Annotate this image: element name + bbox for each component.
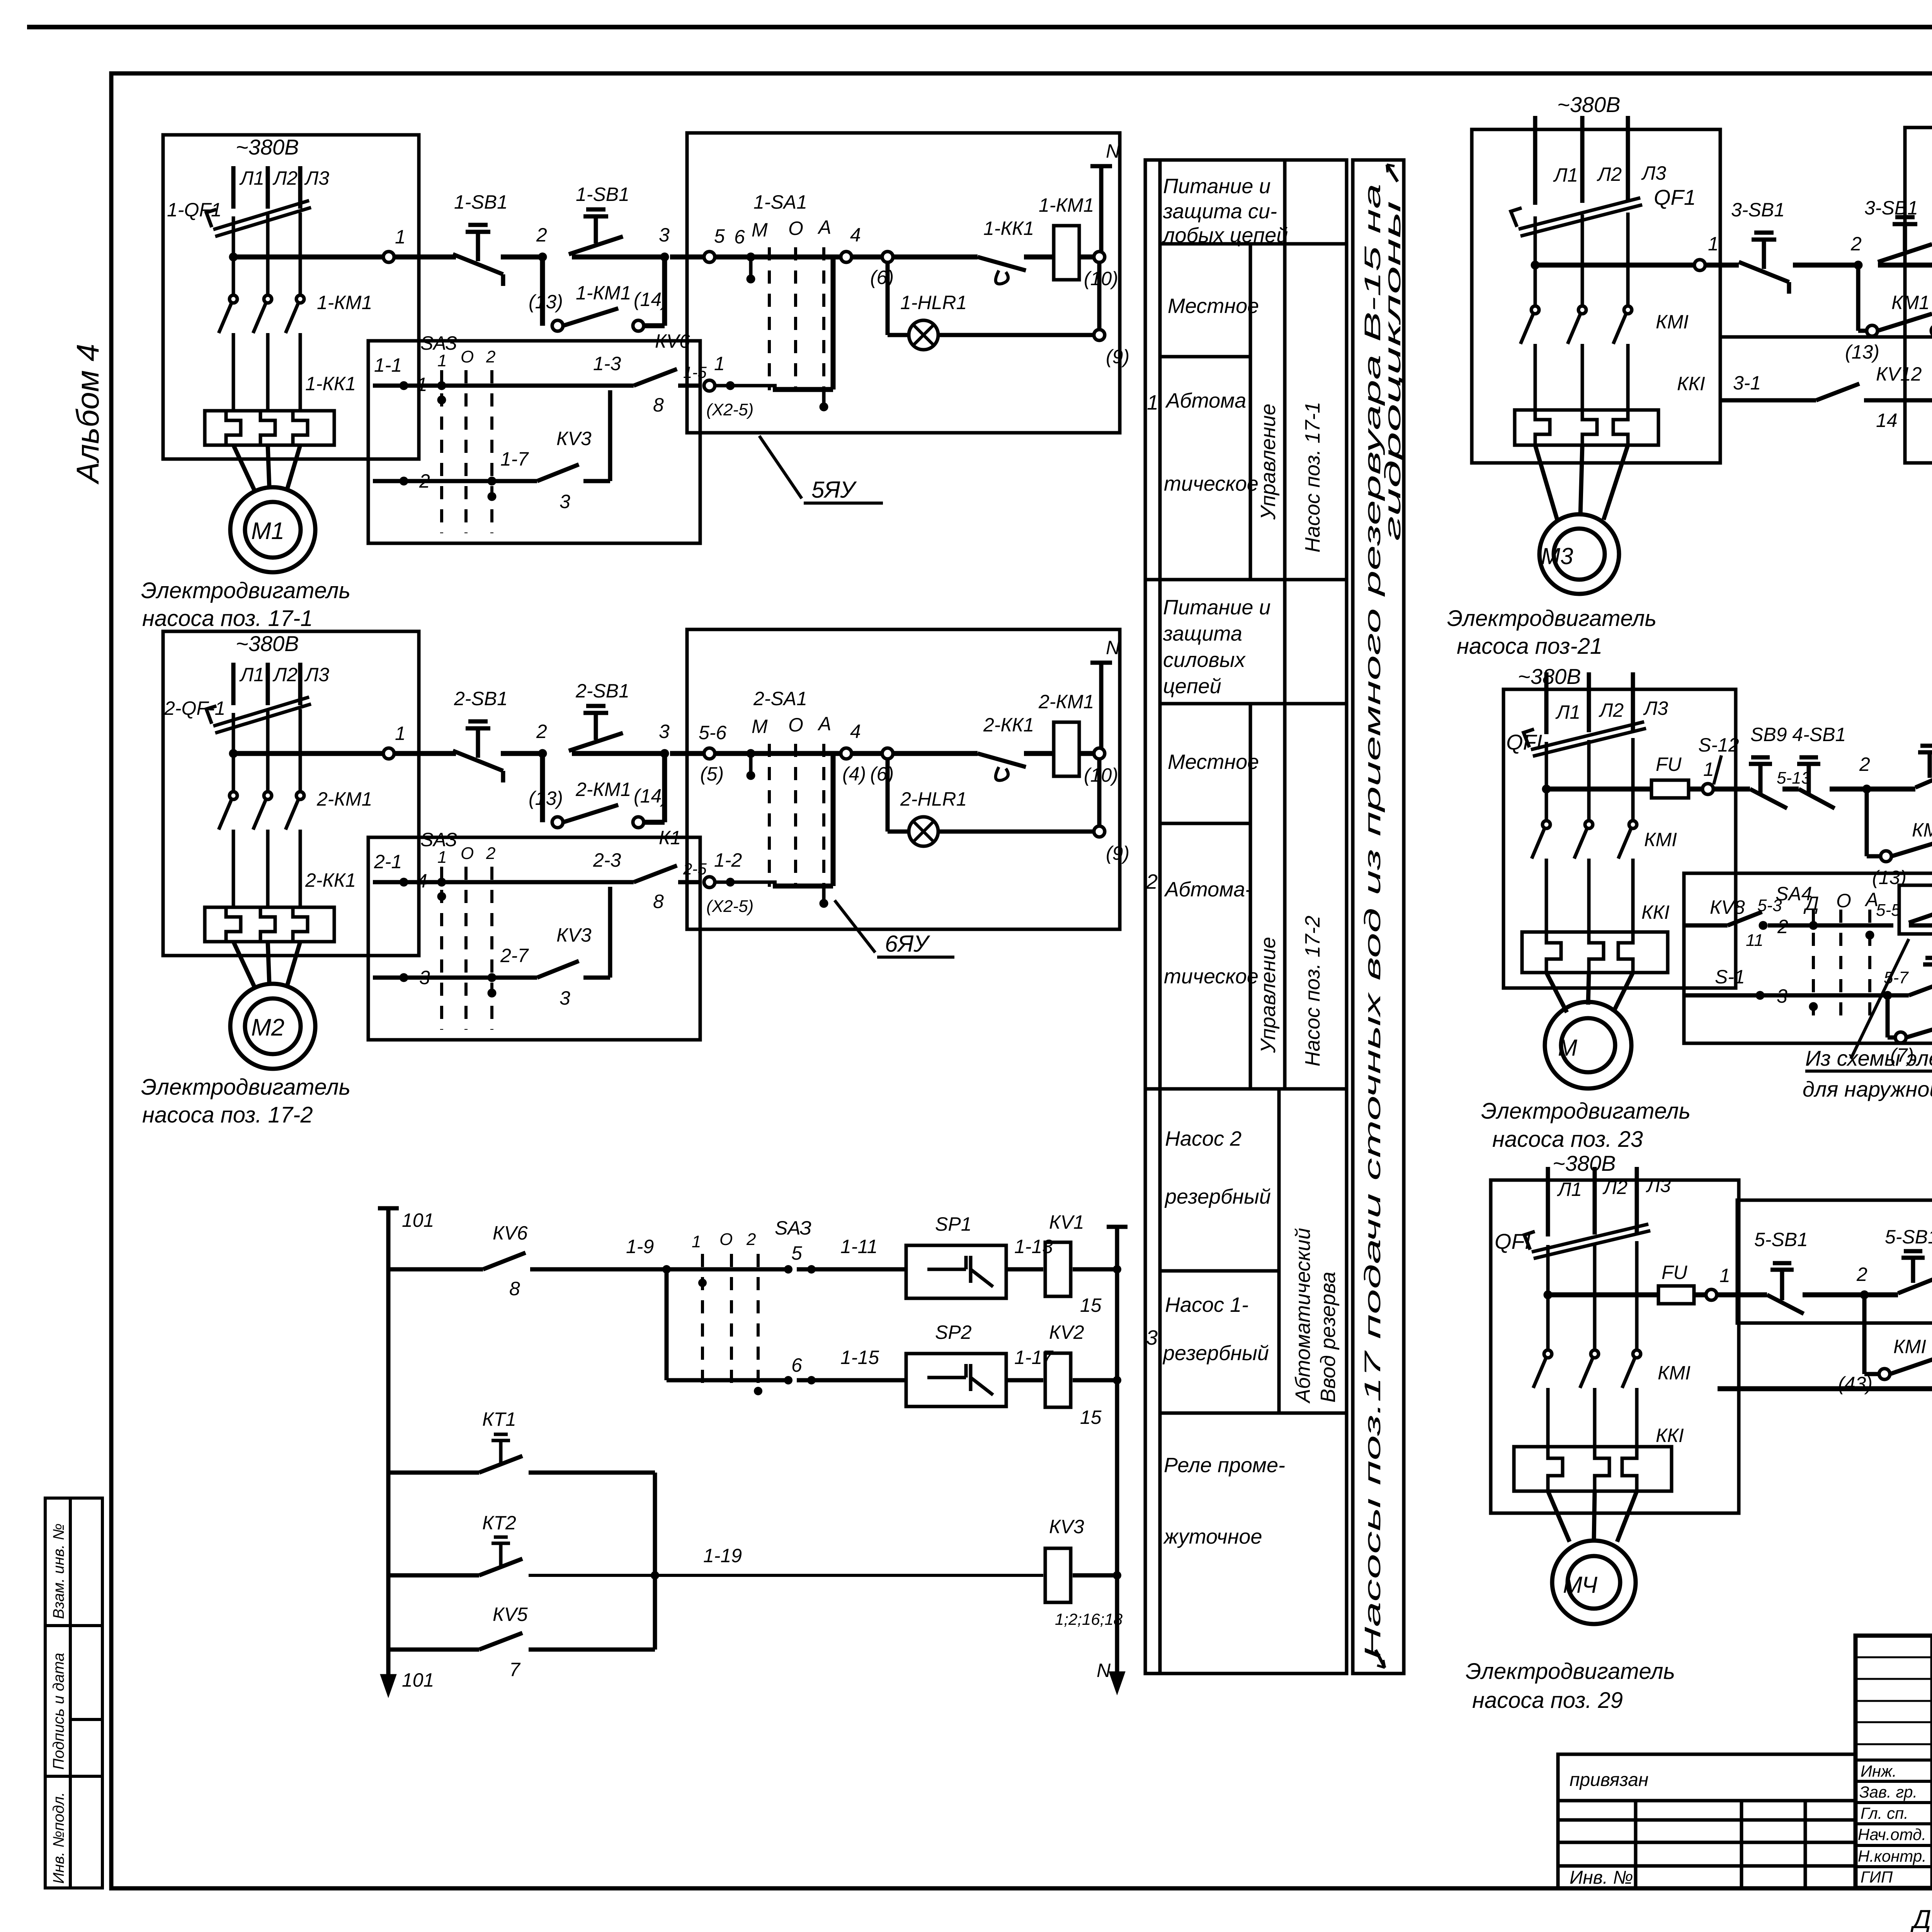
svg-text:2-КМ1: 2-КМ1 <box>316 788 372 810</box>
svg-text:~380В: ~380В <box>1553 1151 1616 1175</box>
svg-text:5-SВ1: 5-SВ1 <box>1754 1229 1808 1250</box>
svg-text:цепей: цепей <box>1163 675 1221 698</box>
svg-text:7: 7 <box>509 1659 521 1680</box>
svg-text:Взам. инв. №: Взам. инв. № <box>50 1524 67 1619</box>
svg-text:КТ2: КТ2 <box>482 1512 516 1534</box>
svg-text:15: 15 <box>1080 1294 1102 1316</box>
svg-text:~380В: ~380В <box>236 631 299 656</box>
svg-text:(5): (5) <box>700 763 724 785</box>
svg-text:1-SB1: 1-SB1 <box>454 191 508 213</box>
svg-text:~380В: ~380В <box>1518 664 1581 689</box>
svg-text:2: 2 <box>1777 916 1788 937</box>
svg-text:Насос 2: Насос 2 <box>1165 1127 1242 1150</box>
svg-text:Д: Д <box>1803 893 1819 914</box>
svg-text:Л2: Л2 <box>272 664 298 685</box>
svg-text:Л3: Л3 <box>1643 697 1668 719</box>
svg-text:О: О <box>788 218 803 239</box>
svg-text:(14): (14) <box>634 785 668 807</box>
svg-text:КV3: КV3 <box>1049 1516 1084 1537</box>
svg-text:КМI: КМI <box>1658 1362 1690 1384</box>
svg-text:1: 1 <box>417 374 427 395</box>
svg-text:насоса поз-21: насоса поз-21 <box>1457 634 1602 659</box>
svg-text:S-1: S-1 <box>1715 966 1745 988</box>
svg-text:КV6: КV6 <box>493 1222 528 1244</box>
svg-text:О: О <box>1836 890 1851 912</box>
svg-text:ГИП: ГИП <box>1861 1868 1893 1886</box>
svg-text:1-5: 1-5 <box>683 363 707 381</box>
svg-text:SР1: SР1 <box>935 1213 972 1235</box>
svg-text:КV3: КV3 <box>556 428 592 449</box>
svg-text:(10): (10) <box>1084 268 1118 289</box>
svg-text:Л3: Л3 <box>304 167 329 189</box>
svg-text:Подпись и дата: Подпись и дата <box>50 1653 67 1770</box>
svg-text:QF1: QF1 <box>1654 185 1696 209</box>
svg-text:~380В: ~380В <box>1557 92 1621 117</box>
svg-text:Л1: Л1 <box>1557 1179 1582 1200</box>
svg-text:М: М <box>1558 1035 1577 1061</box>
svg-text:КV8: КV8 <box>1710 896 1745 918</box>
svg-text:2-3: 2-3 <box>593 849 621 871</box>
svg-text:Из схемы электрической упра: Из схемы электрической упрабления устано… <box>1805 1046 1932 1070</box>
svg-text:Гл. сп.: Гл. сп. <box>1861 1804 1908 1822</box>
svg-text:3: 3 <box>560 491 570 512</box>
svg-text:1-15: 1-15 <box>840 1347 879 1368</box>
svg-text:2: 2 <box>536 224 547 246</box>
svg-text:2-КК1: 2-КК1 <box>305 869 356 891</box>
svg-text:насоса поз. 17-1: насоса поз. 17-1 <box>142 606 313 631</box>
svg-text:3: 3 <box>659 224 670 246</box>
svg-text:5ЯУ: 5ЯУ <box>811 477 857 503</box>
svg-text:О: О <box>788 714 803 736</box>
svg-text:насоса поз. 17-2: насоса поз. 17-2 <box>142 1102 313 1128</box>
svg-text:2-КМ1: 2-КМ1 <box>575 779 631 800</box>
svg-text:5-6: 5-6 <box>699 722 726 743</box>
svg-text:2: 2 <box>419 470 430 492</box>
svg-text:1-КМ1: 1-КМ1 <box>317 292 372 313</box>
svg-text:3-1: 3-1 <box>1733 372 1761 394</box>
svg-text:КV1: КV1 <box>1049 1211 1084 1233</box>
svg-text:Насос поз. 17-2: Насос поз. 17-2 <box>1301 916 1324 1066</box>
svg-text:1-КК1: 1-КК1 <box>983 218 1034 239</box>
svg-text:К1: К1 <box>659 827 681 849</box>
svg-text:SР2: SР2 <box>935 1321 972 1343</box>
svg-text:Абтоматический: Абтоматический <box>1291 1228 1315 1404</box>
svg-text:Управление: Управление <box>1257 937 1280 1053</box>
svg-text:ККI: ККI <box>1656 1425 1684 1446</box>
svg-text:2-5: 2-5 <box>683 860 707 878</box>
svg-text:2: 2 <box>486 347 495 366</box>
svg-text:6ЯУ: 6ЯУ <box>885 931 930 957</box>
svg-text:Питание и: Питание и <box>1163 175 1270 198</box>
svg-text:8: 8 <box>509 1278 520 1299</box>
svg-text:4: 4 <box>850 224 861 246</box>
svg-text:1-HLR1: 1-HLR1 <box>900 292 967 313</box>
svg-text:1-13: 1-13 <box>1014 1236 1053 1257</box>
svg-text:Л2: Л2 <box>272 167 298 189</box>
svg-text:15: 15 <box>1080 1406 1102 1428</box>
svg-text:Местное: Местное <box>1168 294 1259 318</box>
svg-text:FU: FU <box>1656 753 1682 775</box>
svg-text:(43): (43) <box>1838 1373 1872 1395</box>
svg-text:3-SВ1: 3-SВ1 <box>1864 197 1918 219</box>
svg-text:3: 3 <box>659 721 670 742</box>
svg-text:А: А <box>817 216 831 238</box>
svg-text:2: 2 <box>1146 870 1158 893</box>
svg-text:1-11: 1-11 <box>840 1236 878 1257</box>
svg-text:Н.контр.: Н.контр. <box>1858 1847 1927 1865</box>
svg-text:Электродвигатель: Электродвигатель <box>141 578 350 603</box>
svg-text:КМI: КМI <box>1644 829 1677 850</box>
svg-text:1-1: 1-1 <box>374 354 402 376</box>
svg-text:КV5: КV5 <box>493 1604 528 1625</box>
svg-text:N: N <box>1097 1660 1111 1681</box>
svg-text:1: 1 <box>437 351 447 370</box>
svg-text:Л2: Л2 <box>1602 1177 1628 1198</box>
svg-text:1: 1 <box>1708 233 1719 255</box>
svg-text:N: N <box>1106 140 1120 162</box>
svg-text:Л1: Л1 <box>239 167 264 189</box>
svg-text:2: 2 <box>536 721 547 742</box>
svg-text:КМ1: КМ1 <box>1891 292 1930 313</box>
svg-text:(13): (13) <box>1872 867 1906 888</box>
svg-text:1: 1 <box>692 1232 701 1251</box>
svg-text:КТ1: КТ1 <box>482 1408 516 1430</box>
svg-text:SАЗ: SАЗ <box>420 829 457 850</box>
svg-text:4: 4 <box>850 721 861 742</box>
svg-text:Инв. №подл.: Инв. №подл. <box>50 1792 67 1884</box>
svg-text:М3: М3 <box>1541 543 1573 569</box>
svg-text:Инв. №: Инв. № <box>1570 1867 1633 1888</box>
svg-text:5-5: 5-5 <box>1876 901 1901 920</box>
svg-text:1: 1 <box>1719 1265 1730 1286</box>
svg-text:Насос 1-: Насос 1- <box>1165 1293 1248 1316</box>
svg-text:3: 3 <box>419 967 430 988</box>
svg-text:силовых: силовых <box>1163 648 1246 672</box>
svg-text:М: М <box>752 219 768 241</box>
svg-text:(4): (4) <box>842 763 866 785</box>
svg-text:ККI: ККI <box>1677 373 1705 395</box>
svg-text:(13): (13) <box>1845 341 1879 363</box>
svg-text:2: 2 <box>746 1230 756 1249</box>
svg-text:Ввод резерва: Ввод резерва <box>1316 1272 1340 1403</box>
svg-text:1: 1 <box>1147 391 1158 414</box>
svg-text:КМ1: КМ1 <box>1912 819 1932 841</box>
svg-text:Электродвигатель: Электродвигатель <box>141 1075 350 1100</box>
svg-text:3: 3 <box>1146 1326 1158 1349</box>
svg-text:насоса поз. 23: насоса поз. 23 <box>1492 1127 1643 1152</box>
svg-text:Л3: Л3 <box>304 664 329 685</box>
svg-text:(Х2-5): (Х2-5) <box>706 400 753 419</box>
svg-text:1-КМ1: 1-КМ1 <box>1039 194 1094 216</box>
svg-text:N: N <box>1106 637 1120 658</box>
svg-text:11: 11 <box>1746 931 1764 950</box>
svg-text:~380В: ~380В <box>236 135 299 159</box>
svg-text:SВ9 4-SВ1: SВ9 4-SВ1 <box>1750 724 1846 745</box>
svg-text:М: М <box>752 716 768 737</box>
svg-text:(13): (13) <box>529 787 563 809</box>
svg-text:1: 1 <box>395 723 406 744</box>
svg-text:М1: М1 <box>251 518 284 544</box>
svg-text:Электродвигатель: Электродвигатель <box>1466 1659 1675 1684</box>
svg-text:1-SB1: 1-SB1 <box>576 184 629 205</box>
svg-text:QFI: QFI <box>1495 1229 1531 1253</box>
svg-text:лобых цепей: лобых цепей <box>1162 224 1288 247</box>
svg-text:защита си-: защита си- <box>1163 200 1277 223</box>
svg-text:2-КК1: 2-КК1 <box>983 714 1034 736</box>
svg-text:насоса поз. 29: насоса поз. 29 <box>1472 1688 1623 1713</box>
svg-text:2: 2 <box>1850 233 1862 255</box>
svg-text:Абтома: Абтома <box>1165 389 1246 412</box>
svg-text:S-12: S-12 <box>1698 734 1739 756</box>
svg-text:резербный: резербный <box>1162 1342 1269 1365</box>
svg-text:SАЗ: SАЗ <box>420 332 457 354</box>
svg-text:QFI: QFI <box>1506 730 1542 754</box>
svg-text:Л1: Л1 <box>239 664 264 685</box>
svg-text:6: 6 <box>791 1354 802 1376</box>
svg-text:2-HLR1: 2-HLR1 <box>900 788 967 810</box>
svg-text:КV12: КV12 <box>1876 363 1922 385</box>
svg-text:2: 2 <box>1856 1264 1867 1285</box>
svg-text:Л2: Л2 <box>1599 699 1624 721</box>
svg-text:(14): (14) <box>634 289 668 310</box>
svg-text:тическое: тическое <box>1164 965 1259 988</box>
svg-text:гидроциклоны: гидроциклоны <box>1380 201 1405 541</box>
svg-text:Реле проме-: Реле проме- <box>1164 1454 1285 1477</box>
svg-text:1-9: 1-9 <box>626 1236 654 1257</box>
svg-text:Электродвигатель: Электродвигатель <box>1481 1099 1690 1124</box>
svg-text:2-SА1: 2-SА1 <box>753 688 807 709</box>
svg-text:ККI: ККI <box>1641 901 1670 923</box>
svg-text:КМI: КМI <box>1656 311 1689 333</box>
svg-text:5: 5 <box>791 1242 802 1264</box>
svg-text:SАЗ: SАЗ <box>775 1217 811 1239</box>
svg-text:Абтома-: Абтома- <box>1164 878 1252 901</box>
svg-text:Альбом 4: Альбом 4 <box>70 344 105 485</box>
svg-text:Местное: Местное <box>1168 750 1259 774</box>
svg-text:1: 1 <box>395 226 406 248</box>
svg-text:Электродвигатель: Электродвигатель <box>1447 606 1656 631</box>
svg-text:(6): (6) <box>870 763 894 785</box>
svg-text:Нач.отд.: Нач.отд. <box>1858 1825 1926 1844</box>
svg-text:1-КМ1: 1-КМ1 <box>576 282 631 304</box>
svg-text:Л1: Л1 <box>1555 701 1580 723</box>
svg-text:Л3: Л3 <box>1646 1175 1671 1196</box>
svg-text:1-19: 1-19 <box>703 1545 742 1566</box>
svg-text:А: А <box>817 713 831 735</box>
svg-text:Л1: Л1 <box>1553 164 1578 186</box>
svg-text:М2: М2 <box>251 1014 284 1041</box>
svg-text:2-SВ1: 2-SВ1 <box>575 680 629 702</box>
svg-text:1-7: 1-7 <box>500 448 529 470</box>
svg-text:Довгаль: Довгаль <box>1910 1905 1932 1932</box>
svg-text:Инж.: Инж. <box>1861 1762 1897 1780</box>
svg-text:Л2: Л2 <box>1597 163 1622 185</box>
svg-text:5-13: 5-13 <box>1777 769 1811 787</box>
svg-text:защита: защита <box>1163 622 1242 645</box>
svg-text:(6): (6) <box>870 267 894 288</box>
svg-text:2: 2 <box>486 844 495 863</box>
svg-text:(9): (9) <box>1106 842 1129 864</box>
svg-text:КV2: КV2 <box>1049 1321 1084 1343</box>
svg-text:3: 3 <box>560 987 570 1009</box>
svg-text:тическое: тическое <box>1164 472 1259 495</box>
svg-text:Насос поз. 17-1: Насос поз. 17-1 <box>1301 402 1324 553</box>
svg-text:МЧ: МЧ <box>1563 1572 1598 1598</box>
svg-text:1-SA1: 1-SA1 <box>753 191 807 213</box>
svg-text:2: 2 <box>1859 753 1870 775</box>
svg-text:2-КМ1: 2-КМ1 <box>1038 691 1094 713</box>
svg-text:FU: FU <box>1662 1262 1688 1283</box>
svg-text:101: 101 <box>402 1209 434 1231</box>
svg-text:КV3: КV3 <box>556 924 592 946</box>
svg-text:5-SВ1: 5-SВ1 <box>1885 1226 1932 1248</box>
svg-text:1: 1 <box>1703 759 1714 780</box>
svg-text:6: 6 <box>734 226 745 248</box>
svg-text:Управление: Управление <box>1257 404 1280 520</box>
svg-text:1-3: 1-3 <box>593 353 621 374</box>
svg-text:Зав. гр.: Зав. гр. <box>1859 1783 1917 1801</box>
svg-text:3-SВ1: 3-SВ1 <box>1731 199 1785 221</box>
svg-text:О: О <box>461 844 474 863</box>
svg-text:2-1: 2-1 <box>374 851 402 872</box>
svg-text:1-17: 1-17 <box>1014 1347 1054 1368</box>
svg-text:2-QF-1: 2-QF-1 <box>164 697 225 719</box>
svg-text:Питание и: Питание и <box>1163 596 1270 619</box>
svg-text:Л3: Л3 <box>1641 162 1666 184</box>
svg-text:14: 14 <box>1876 410 1898 431</box>
svg-text:5: 5 <box>714 225 725 247</box>
svg-text:3: 3 <box>1777 985 1787 1007</box>
svg-text:жуточное: жуточное <box>1163 1525 1262 1548</box>
svg-text:1-QF1: 1-QF1 <box>167 199 222 221</box>
svg-text:5-7: 5-7 <box>1884 968 1909 987</box>
svg-text:101: 101 <box>402 1669 434 1691</box>
svg-text:(13): (13) <box>529 291 563 313</box>
svg-text:для наружной мойки поз. 1: для наружной мойки поз. 1 (по проекту Н.… <box>1803 1077 1932 1101</box>
svg-text:(10): (10) <box>1084 764 1118 786</box>
svg-text:1-КК1: 1-КК1 <box>305 373 356 395</box>
svg-text:1: 1 <box>437 848 447 867</box>
svg-text:резербный: резербный <box>1164 1185 1271 1208</box>
svg-text:8: 8 <box>653 891 664 912</box>
svg-text:4: 4 <box>417 870 427 892</box>
svg-text:О: О <box>719 1230 733 1249</box>
svg-text:КМI: КМI <box>1893 1336 1926 1357</box>
svg-text:2-7: 2-7 <box>500 945 529 966</box>
svg-text:О: О <box>461 347 474 366</box>
svg-text:1-2: 1-2 <box>714 849 742 871</box>
svg-text:КV6: КV6 <box>655 330 690 352</box>
svg-text:(9): (9) <box>1106 346 1129 367</box>
svg-text:(Х2-5): (Х2-5) <box>706 897 753 916</box>
svg-text:1;2;16;18: 1;2;16;18 <box>1055 1610 1123 1628</box>
svg-text:8: 8 <box>653 394 664 416</box>
svg-text:2-SВ1: 2-SВ1 <box>454 688 508 709</box>
svg-text:привязан: привязан <box>1570 1770 1648 1790</box>
svg-text:1: 1 <box>714 353 725 374</box>
